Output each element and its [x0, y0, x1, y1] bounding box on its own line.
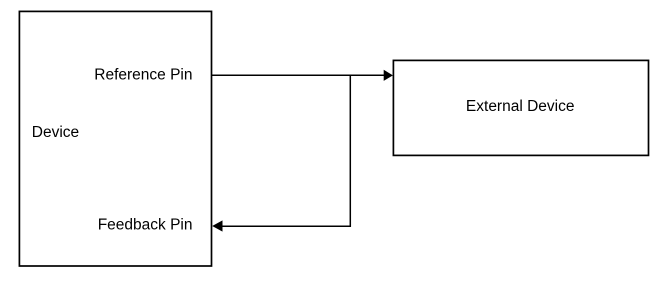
- wire: Reference Pin output, horizontal run: [212, 74, 385, 76]
- svg-text:Device: Device: [32, 124, 79, 141]
- arrowhead into Feedback Pin: [212, 220, 222, 231]
- block U1: Device: [19, 11, 211, 266]
- block U2: External Device: [393, 60, 648, 155]
- svg-text:Reference Pin: Reference Pin: [94, 67, 192, 84]
- wire: vertical feedback branch at node junction: [349, 75, 351, 227]
- wire: feedback horizontal run to Feedback Pin: [222, 225, 351, 227]
- svg-text:External Device: External Device: [466, 98, 575, 115]
- svg-text:Feedback Pin: Feedback Pin: [98, 216, 193, 233]
- arrowhead into External Device: [384, 70, 393, 81]
